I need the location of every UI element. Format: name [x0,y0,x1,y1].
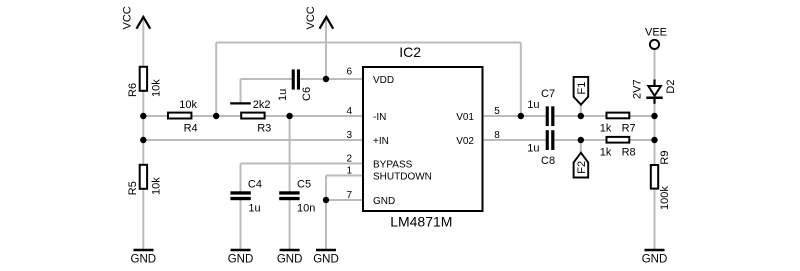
wire VDD pin 6 to C6 [300,78,363,80]
svg-text:C6: C6 [301,87,313,101]
svg-text:1u: 1u [277,89,289,101]
VCC supply symbol 1 [122,6,151,29]
flag F2 [574,153,589,178]
wire C4 bottom to GND [240,200,242,250]
resistor R8 [600,137,636,159]
junction node A [140,113,146,119]
svg-text:GND: GND [228,254,254,266]
capacitor C5 [279,179,315,215]
svg-text:-IN: -IN [373,112,386,123]
svg-text:10k: 10k [150,177,162,195]
svg-text:GND: GND [642,254,668,266]
svg-text:GND: GND [131,254,157,266]
resistor R7 [600,113,636,135]
wire +IN row (node to IC pin 3) [143,139,362,141]
svg-text:6: 6 [346,67,352,78]
wire feedback top horizontal [216,42,521,44]
svg-text:100k: 100k [659,186,671,210]
svg-text:VDD: VDD [373,75,394,86]
svg-text:R3: R3 [257,123,271,135]
wire GND pin 7 horizontal [326,199,362,201]
svg-text:R7: R7 [622,123,636,135]
capacitor C8 [527,130,555,167]
zener diode D2 [632,79,677,103]
VCC supply symbol 2 [305,6,333,29]
wire VCC2 vertical [325,19,327,79]
svg-text:V02: V02 [456,136,474,147]
op-amp IC2 LM4871M box [363,44,483,229]
svg-text:4: 4 [346,106,352,117]
junction D2/R7 rail [651,113,657,119]
wire VCC1 vertical to node A [142,19,144,116]
svg-text:IC2: IC2 [399,44,421,60]
svg-text:10k: 10k [150,79,162,97]
wire F1 stub [580,104,582,116]
junction F2 node [578,137,584,143]
wire V02 pin 8 to C8 [484,139,547,141]
wire C8 to R8 to rail [555,139,655,141]
junction V01 feedback tap [518,113,524,119]
svg-text:C5: C5 [297,179,311,191]
svg-text:2k2: 2k2 [253,99,271,111]
resistor R3 [241,99,271,135]
svg-text:GND: GND [277,254,303,266]
svg-text:BYPASS: BYPASS [373,159,413,170]
wire VEE circle to D2 [654,50,656,86]
svg-text:D2: D2 [665,80,677,94]
wire F2 stub [580,140,582,153]
wire C6 left horizontal [241,78,293,80]
svg-text:5: 5 [494,106,500,117]
junction shutdown/GND [323,197,329,203]
wire R5 branch down to GND [142,140,144,250]
svg-text:1u: 1u [248,202,260,214]
svg-text:F1: F1 [576,82,588,95]
svg-text:+IN: +IN [373,136,389,147]
svg-text:7: 7 [346,190,352,201]
IC2 pin labels [373,75,474,207]
wire -IN row (node A to IC pin 4) [143,115,362,117]
resistor R4 [168,99,198,135]
svg-text:R9: R9 [659,151,671,165]
svg-text:GND: GND [313,254,339,266]
wire C7 to R7 to rail [555,115,655,117]
svg-text:GND: GND [373,196,395,207]
IC2 pin numbers [346,67,500,201]
wire BYPASS down to C4 [240,164,242,192]
svg-text:C4: C4 [248,179,262,191]
svg-text:2: 2 [346,153,352,164]
ground bar for C6 [230,102,251,104]
wire feedback vertical down to V01 node [520,43,522,117]
svg-text:VCC: VCC [122,6,134,29]
svg-text:10n: 10n [297,202,315,214]
junction node B [213,113,219,119]
ground symbol under IC [313,250,339,266]
junction node A2 on +IN row [140,137,146,143]
capacitor C6 [277,69,313,101]
wire C5 bottom to GND [289,200,291,250]
wire BYPASS pin 2 horizontal [241,163,363,165]
VEE supply symbol [645,27,667,50]
svg-text:8: 8 [494,130,500,141]
ground symbol under R9 [642,250,668,266]
svg-text:VCC: VCC [305,6,317,29]
svg-text:V01: V01 [456,112,474,123]
svg-text:VEE: VEE [645,27,667,39]
svg-text:1k: 1k [600,147,612,159]
svg-text:1k: 1k [600,123,612,135]
wire SHUTDOWN pin 1 horizontal [326,175,362,177]
wire feedback vertical up from node B [215,43,217,117]
junction F1 node [578,113,584,119]
svg-text:C8: C8 [541,155,555,167]
junction node C [286,113,292,119]
svg-text:F2: F2 [576,161,588,174]
capacitor C4 [230,179,262,215]
wire shutdown down to GND junction [325,176,327,250]
svg-text:SHUTDOWN: SHUTDOWN [373,171,432,182]
ground symbol under R5 [131,250,157,266]
svg-text:2V7: 2V7 [632,79,644,99]
resistor R6 [127,67,163,97]
resistor R5 [127,165,163,195]
wire node A down to +IN row [142,116,144,140]
svg-text:10k: 10k [179,99,197,111]
svg-text:C7: C7 [541,88,555,100]
svg-text:3: 3 [346,130,352,141]
ground symbol under C4 [228,250,254,266]
svg-text:1: 1 [346,165,352,176]
svg-text:R6: R6 [127,83,139,97]
wire V01 pin 5 to C7 [484,115,547,117]
wire D2 cathode down right rail to GND [654,98,656,250]
junction VDD/VCC [323,76,329,82]
junction R8/R9 rail [651,137,657,143]
svg-text:R8: R8 [622,147,636,159]
svg-text:1u: 1u [527,143,539,155]
capacitor C7 [527,88,555,126]
wire node C down to C5 [289,116,291,192]
svg-text:R5: R5 [127,181,139,195]
svg-text:LM4871M: LM4871M [390,214,452,230]
svg-text:1u: 1u [527,99,539,111]
resistor R9 [651,151,671,210]
ground symbol under C5 [277,250,303,266]
wire C6 left down to ground bar [240,79,242,103]
svg-text:R4: R4 [184,123,198,135]
flag F1 [574,77,589,105]
